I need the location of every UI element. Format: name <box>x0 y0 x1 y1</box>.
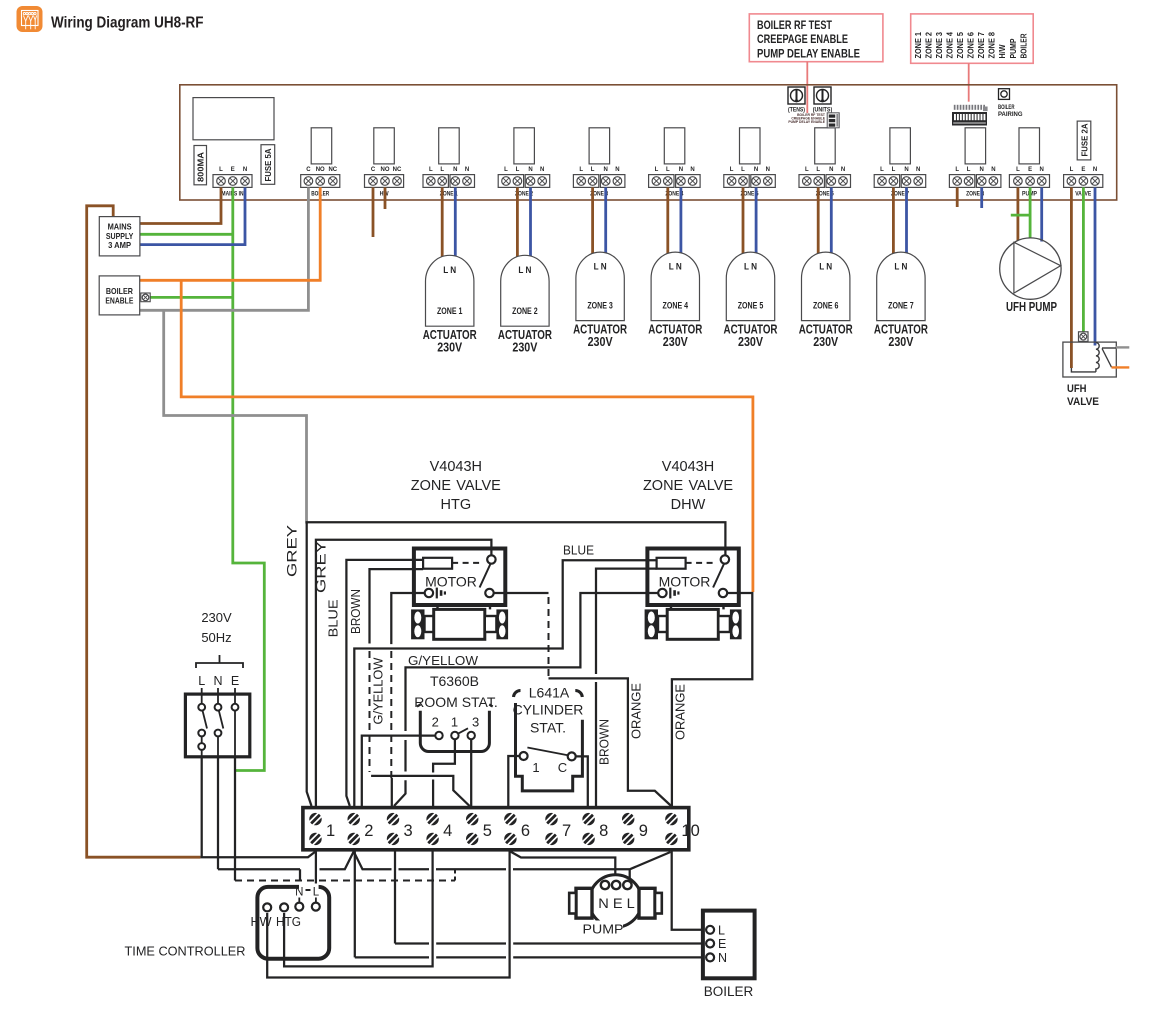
svg-text:L: L <box>718 924 725 938</box>
svg-text:230V: 230V <box>437 340 462 355</box>
svg-text:ZONE 4: ZONE 4 <box>944 32 954 59</box>
svg-text:ZONE 6: ZONE 6 <box>966 32 976 59</box>
svg-text:L: L <box>1016 167 1020 173</box>
svg-text:ZONE 3: ZONE 3 <box>934 32 944 59</box>
svg-text:C: C <box>558 760 567 775</box>
svg-text:3: 3 <box>472 715 479 730</box>
svg-text:DHW: DHW <box>671 497 706 513</box>
relay outlines above terminal blocks <box>311 128 1039 164</box>
wire brown zone 5 actuator L <box>742 187 745 257</box>
big DIP switch (11-way) <box>952 105 988 126</box>
wire blue zone 2 actuator N <box>529 187 532 259</box>
small DIP switch (3-way) <box>827 113 839 128</box>
svg-text:E: E <box>231 674 239 688</box>
terminal block MAINS IN <box>213 167 252 198</box>
svg-text:230V: 230V <box>201 610 232 625</box>
wire brown zone 7 actuator L <box>892 187 895 257</box>
svg-text:L: L <box>591 167 595 173</box>
svg-text:L N: L N <box>518 265 531 275</box>
svg-text:H/W: H/W <box>997 44 1007 59</box>
wire brown HW NO stub <box>384 187 387 209</box>
terminal block HW <box>365 167 404 198</box>
svg-text:ENABLE: ENABLE <box>105 296 133 306</box>
svg-text:VALVE: VALVE <box>1067 396 1099 408</box>
valve body DHW <box>645 605 742 639</box>
svg-text:N: N <box>829 167 833 173</box>
svg-text:L: L <box>504 167 508 173</box>
svg-text:L: L <box>579 167 583 173</box>
svg-text:L: L <box>1070 167 1074 173</box>
svg-text:N: N <box>916 167 920 173</box>
wire blue DHW <box>354 560 656 806</box>
cylinder stat L641A <box>513 685 584 791</box>
fuse 800MA <box>194 146 207 185</box>
terminal strip 1-10 <box>303 808 700 850</box>
red annotation box: zone list <box>911 14 1033 63</box>
svg-text:1: 1 <box>532 760 539 775</box>
svg-text:G/YELLOW: G/YELLOW <box>408 654 478 668</box>
wire blue mains N <box>140 187 245 244</box>
wire grey valve output <box>1116 346 1129 348</box>
svg-text:E: E <box>1028 167 1032 173</box>
wire green mains E <box>233 187 264 770</box>
svg-text:N: N <box>766 167 770 173</box>
svg-text:N: N <box>213 674 222 688</box>
header icon <box>17 6 43 32</box>
svg-text:ZONE 7: ZONE 7 <box>888 301 914 311</box>
svg-text:L: L <box>880 167 884 173</box>
svg-text:6: 6 <box>521 822 530 840</box>
svg-text:N: N <box>690 167 694 173</box>
svg-text:STAT.: STAT. <box>530 720 566 736</box>
svg-text:PUMP: PUMP <box>1008 38 1018 58</box>
svg-text:ZONE VALVE: ZONE VALVE <box>643 478 733 494</box>
wire blue pump N <box>1040 187 1043 241</box>
svg-text:Wiring Diagram UH8-RF: Wiring Diagram UH8-RF <box>51 15 204 32</box>
svg-text:L: L <box>730 167 734 173</box>
svg-text:N: N <box>295 887 303 899</box>
svg-text:L: L <box>741 167 745 173</box>
svg-text:800MA: 800MA <box>197 152 206 182</box>
terminal block ZONE 7 <box>874 167 926 198</box>
wire room stat 2 to terminal 2 <box>362 736 436 806</box>
svg-text:N: N <box>1040 167 1044 173</box>
pump symbol <box>569 875 662 937</box>
red callout line to DIP <box>806 62 808 113</box>
room stat T6360B <box>414 673 497 752</box>
svg-text:L: L <box>892 167 896 173</box>
svg-text:E: E <box>231 167 235 173</box>
svg-text:L: L <box>198 674 205 688</box>
valve body HTG <box>411 605 508 639</box>
svg-text:10: 10 <box>681 822 699 840</box>
wire terminal 10 to boiler L <box>672 852 706 930</box>
wire orange HTG (switch NO) dashed down <box>494 592 549 594</box>
terminal block ZONE 6 <box>799 167 851 198</box>
wire N to terminal 2 <box>218 869 300 881</box>
time controller <box>251 887 330 959</box>
wire terminal 3 to boiler E <box>395 852 706 944</box>
svg-text:L: L <box>440 167 444 173</box>
wire brown-HTG run to terminal 5 <box>371 776 470 806</box>
svg-text:E: E <box>1081 167 1085 173</box>
svg-text:7: 7 <box>562 822 571 840</box>
wire orange valve output <box>1112 366 1130 368</box>
svg-text:ROOM STAT.: ROOM STAT. <box>414 694 497 710</box>
svg-text:ZONE VALVE: ZONE VALVE <box>411 478 501 494</box>
red callout line to big DIP <box>968 63 970 101</box>
svg-text:N: N <box>465 167 469 173</box>
svg-text:ZONE 2: ZONE 2 <box>923 32 933 59</box>
wire brown zone 2 actuator L <box>516 187 519 260</box>
wire cyl stat 1 to terminal 6 <box>508 756 520 806</box>
svg-text:N: N <box>243 167 247 173</box>
svg-text:230V: 230V <box>663 334 688 349</box>
wire blue zone 6 actuator N <box>830 187 833 256</box>
UFH valve assembly <box>1063 332 1116 408</box>
zone valve motor HTG <box>414 549 505 606</box>
wire brown zone 3 actuator L <box>591 187 594 257</box>
wire 230V N down <box>217 757 219 870</box>
wire E dashed <box>235 880 455 882</box>
svg-text:ZONE 8: ZONE 8 <box>987 32 997 59</box>
svg-text:HW: HW <box>251 915 272 929</box>
wire brown HTG <box>370 569 424 643</box>
svg-text:E: E <box>718 937 726 951</box>
fuse FUSE 2A <box>1077 121 1091 160</box>
svg-text:C: C <box>371 167 376 173</box>
boiler box <box>703 911 755 999</box>
svg-text:ZONE 2: ZONE 2 <box>512 306 538 316</box>
wire grey boiler C <box>140 187 309 310</box>
svg-text:3 AMP: 3 AMP <box>108 240 131 250</box>
svg-text:L: L <box>666 167 670 173</box>
terminal block ZONE 8 <box>949 167 1001 198</box>
controller enclosure UH8-RF <box>180 85 1117 200</box>
wire blue zone 7 actuator N <box>905 187 908 256</box>
terminal block ZONE 3 <box>573 167 625 198</box>
svg-text:N: N <box>679 167 683 173</box>
svg-text:N E L: N E L <box>598 896 635 911</box>
svg-text:PUMP DELAY ENABLE: PUMP DELAY ENABLE <box>788 120 825 124</box>
wire terminal 1 to time controller L <box>315 852 317 884</box>
svg-text:230V: 230V <box>588 334 613 349</box>
svg-text:ZONE 5: ZONE 5 <box>955 32 965 59</box>
svg-text:N: N <box>841 167 845 173</box>
svg-text:BOILER: BOILER <box>1018 33 1028 59</box>
svg-text:ZONE 6: ZONE 6 <box>813 301 839 311</box>
svg-text:NO: NO <box>316 167 325 173</box>
actuator ZONE 4 <box>648 252 702 349</box>
svg-text:L: L <box>516 167 520 173</box>
mains supply box <box>99 217 140 256</box>
svg-text:N: N <box>904 167 908 173</box>
svg-text:ZONE 3: ZONE 3 <box>587 301 613 311</box>
svg-text:BROWN: BROWN <box>348 589 363 634</box>
svg-text:L N: L N <box>819 262 832 272</box>
boiler pairing button <box>998 89 1023 118</box>
svg-text:1: 1 <box>451 715 458 730</box>
terminal block ZONE 1 <box>423 167 475 198</box>
svg-text:PUMP: PUMP <box>583 922 624 937</box>
svg-text:PAIRING: PAIRING <box>998 112 1023 118</box>
svg-text:C: C <box>306 167 311 173</box>
svg-text:L N: L N <box>669 262 682 272</box>
svg-text:NC: NC <box>393 167 402 173</box>
svg-text:2: 2 <box>432 715 439 730</box>
wire terminal 6 to TC HW <box>267 852 509 978</box>
svg-text:ZONE 1: ZONE 1 <box>437 306 463 316</box>
svg-text:3: 3 <box>404 822 413 840</box>
svg-text:L: L <box>429 167 433 173</box>
actuator ZONE 1 <box>423 255 477 354</box>
svg-text:FUSE 5A: FUSE 5A <box>264 148 273 181</box>
wire g/yellow DHW (aux) to terminal 3 <box>406 593 659 731</box>
red annotation box: BOILER RF TEST <box>749 14 883 62</box>
svg-text:BOILER: BOILER <box>106 286 133 296</box>
wire g/yellow HTG (aux) <box>391 593 424 644</box>
wire brown HW C stub <box>372 187 375 237</box>
terminal block ZONE 4 <box>649 167 701 198</box>
actuator ZONE 2 <box>498 255 552 354</box>
svg-text:N: N <box>453 167 457 173</box>
svg-text:T6360B: T6360B <box>430 673 479 689</box>
wire pump L run to terminal 10 <box>354 852 671 882</box>
terminal block ZONE 5 <box>724 167 776 198</box>
svg-text:NO: NO <box>381 167 390 173</box>
svg-text:CYLINDER: CYLINDER <box>513 702 584 718</box>
svg-text:4: 4 <box>443 822 452 840</box>
boiler enable box <box>99 276 150 315</box>
terminal block VALVE <box>1064 167 1103 198</box>
actuator ZONE 5 <box>724 252 778 349</box>
svg-text:L N: L N <box>894 262 907 272</box>
svg-text:N: N <box>604 167 608 173</box>
actuator ZONE 6 <box>799 252 853 349</box>
svg-text:BROWN: BROWN <box>598 719 612 765</box>
svg-text:TIME CONTROLLER: TIME CONTROLLER <box>125 945 246 959</box>
svg-text:HTG: HTG <box>276 915 301 929</box>
svg-text:5: 5 <box>483 822 492 840</box>
terminal block ZONE 2 <box>498 167 550 198</box>
wire brown zone 4 actuator L <box>666 187 669 257</box>
svg-text:L: L <box>805 167 809 173</box>
wire L to terminal 1 <box>200 852 315 858</box>
svg-text:N: N <box>540 167 544 173</box>
wire grey DHW (outer loop) to terminal 1 <box>307 522 726 806</box>
svg-text:N: N <box>1093 167 1097 173</box>
wire brown zone 8 stub <box>956 187 959 207</box>
wire brown valve L <box>1070 187 1073 368</box>
wire blue zone 4 actuator N <box>680 187 683 256</box>
UFH pump symbol <box>1000 238 1061 314</box>
V4043H ZONE VALVE DHW label <box>643 459 733 513</box>
wire green boiler enable <box>150 296 233 299</box>
wire green valve E <box>1082 187 1085 331</box>
svg-text:BOILER: BOILER <box>704 984 754 999</box>
wire brown zone 1 actuator L <box>441 187 444 260</box>
svg-text:230V: 230V <box>888 334 913 349</box>
svg-text:PUMP DELAY ENABLE: PUMP DELAY ENABLE <box>757 47 860 60</box>
svg-text:MOTOR: MOTOR <box>659 574 711 590</box>
V4043H ZONE VALVE HTG label <box>411 459 501 513</box>
wire terminal 4 to TC HTG <box>284 852 433 967</box>
svg-text:G/YELLOW: G/YELLOW <box>371 657 385 724</box>
svg-text:50Hz: 50Hz <box>201 630 231 645</box>
svg-text:L641A: L641A <box>529 685 570 701</box>
actuator ZONE 7 <box>874 252 928 349</box>
wire blue zone 8 stub <box>980 187 983 208</box>
svg-text:GREY: GREY <box>284 525 299 577</box>
terminal block PUMP <box>1009 167 1049 198</box>
svg-text:L: L <box>967 167 971 173</box>
svg-text:N: N <box>615 167 619 173</box>
actuator ZONE 3 <box>573 252 627 349</box>
wire brown pump L <box>1017 187 1020 240</box>
wire room stat 1 to terminal 4 <box>433 739 455 772</box>
svg-text:FUSE 2A: FUSE 2A <box>1080 123 1089 156</box>
svg-text:GREY: GREY <box>314 541 329 593</box>
svg-text:230V: 230V <box>738 334 763 349</box>
wire grey HTG (inner loop) to terminal 1 <box>316 540 492 806</box>
wire blue zone 3 actuator N <box>604 187 607 256</box>
wire brown zone 6 actuator L <box>817 187 820 257</box>
svg-text:N: N <box>754 167 758 173</box>
svg-text:L N: L N <box>443 265 456 275</box>
terminal block BOILER <box>301 167 340 198</box>
svg-text:L N: L N <box>744 262 757 272</box>
wire blue valve N <box>1094 187 1097 345</box>
wire orange DHW (switch NO) to terminal 10 <box>672 593 752 806</box>
wire room stat 3 to terminal 5 <box>470 739 472 806</box>
wire orange boiler NO <box>140 187 321 280</box>
wire cyl stat C to terminal 8 <box>576 756 588 806</box>
svg-text:ZONE 4: ZONE 4 <box>663 301 689 311</box>
wire terminal 2 to boiler N <box>355 852 706 958</box>
wire blue HTG to terminal 2 <box>346 560 423 806</box>
svg-text:ZONE 5: ZONE 5 <box>738 301 764 311</box>
svg-text:L: L <box>816 167 820 173</box>
svg-text:ZONE 7: ZONE 7 <box>976 32 986 59</box>
svg-text:BOILER: BOILER <box>998 105 1015 111</box>
svg-text:N: N <box>718 951 727 965</box>
wire 230V E down <box>234 757 236 881</box>
wire brown mains L <box>140 187 221 223</box>
svg-text:UFH: UFH <box>1067 383 1087 395</box>
wire green pump E <box>1029 187 1032 238</box>
svg-text:N: N <box>991 167 995 173</box>
svg-text:CREEPAGE ENABLE: CREEPAGE ENABLE <box>757 33 848 46</box>
rotary dial (TENS) <box>788 87 805 114</box>
230V 50Hz supply <box>185 610 249 757</box>
wire blue zone 5 actuator N <box>755 187 758 256</box>
svg-text:V4043H: V4043H <box>430 459 482 475</box>
svg-text:N: N <box>980 167 984 173</box>
svg-text:V4043H: V4043H <box>662 459 714 475</box>
svg-text:ZONE 1: ZONE 1 <box>913 32 923 59</box>
fuse FUSE 5A <box>261 145 275 185</box>
svg-text:2: 2 <box>364 822 373 840</box>
svg-text:230V: 230V <box>512 340 537 355</box>
svg-text:NC: NC <box>328 167 337 173</box>
svg-text:L: L <box>219 167 223 173</box>
display window <box>193 98 274 140</box>
wire terminal 6 to pump E <box>510 852 615 882</box>
svg-text:N: N <box>528 167 532 173</box>
svg-text:L: L <box>655 167 659 173</box>
svg-text:8: 8 <box>599 822 608 840</box>
svg-text:230V: 230V <box>813 334 838 349</box>
rotary dial (UNITS) <box>813 87 833 114</box>
svg-text:ORANGE: ORANGE <box>630 683 644 739</box>
wire 230V L down <box>201 757 203 857</box>
wire brown DHW to terminal 8 <box>596 569 657 674</box>
svg-text:UFH PUMP: UFH PUMP <box>1006 299 1057 314</box>
svg-text:1: 1 <box>326 822 335 840</box>
svg-text:BOILER RF TEST: BOILER RF TEST <box>757 19 832 32</box>
svg-text:L: L <box>955 167 959 173</box>
wire blue zone 1 actuator N <box>454 187 457 259</box>
svg-text:BLUE: BLUE <box>325 599 340 637</box>
zone valve motor DHW <box>647 549 738 606</box>
svg-text:L: L <box>313 887 320 899</box>
svg-text:9: 9 <box>639 822 648 840</box>
svg-text:MOTOR: MOTOR <box>425 574 477 590</box>
svg-text:ORANGE: ORANGE <box>674 684 688 740</box>
svg-text:HTG: HTG <box>440 497 471 513</box>
svg-text:L N: L N <box>594 262 607 272</box>
svg-text:BLUE: BLUE <box>563 544 594 558</box>
